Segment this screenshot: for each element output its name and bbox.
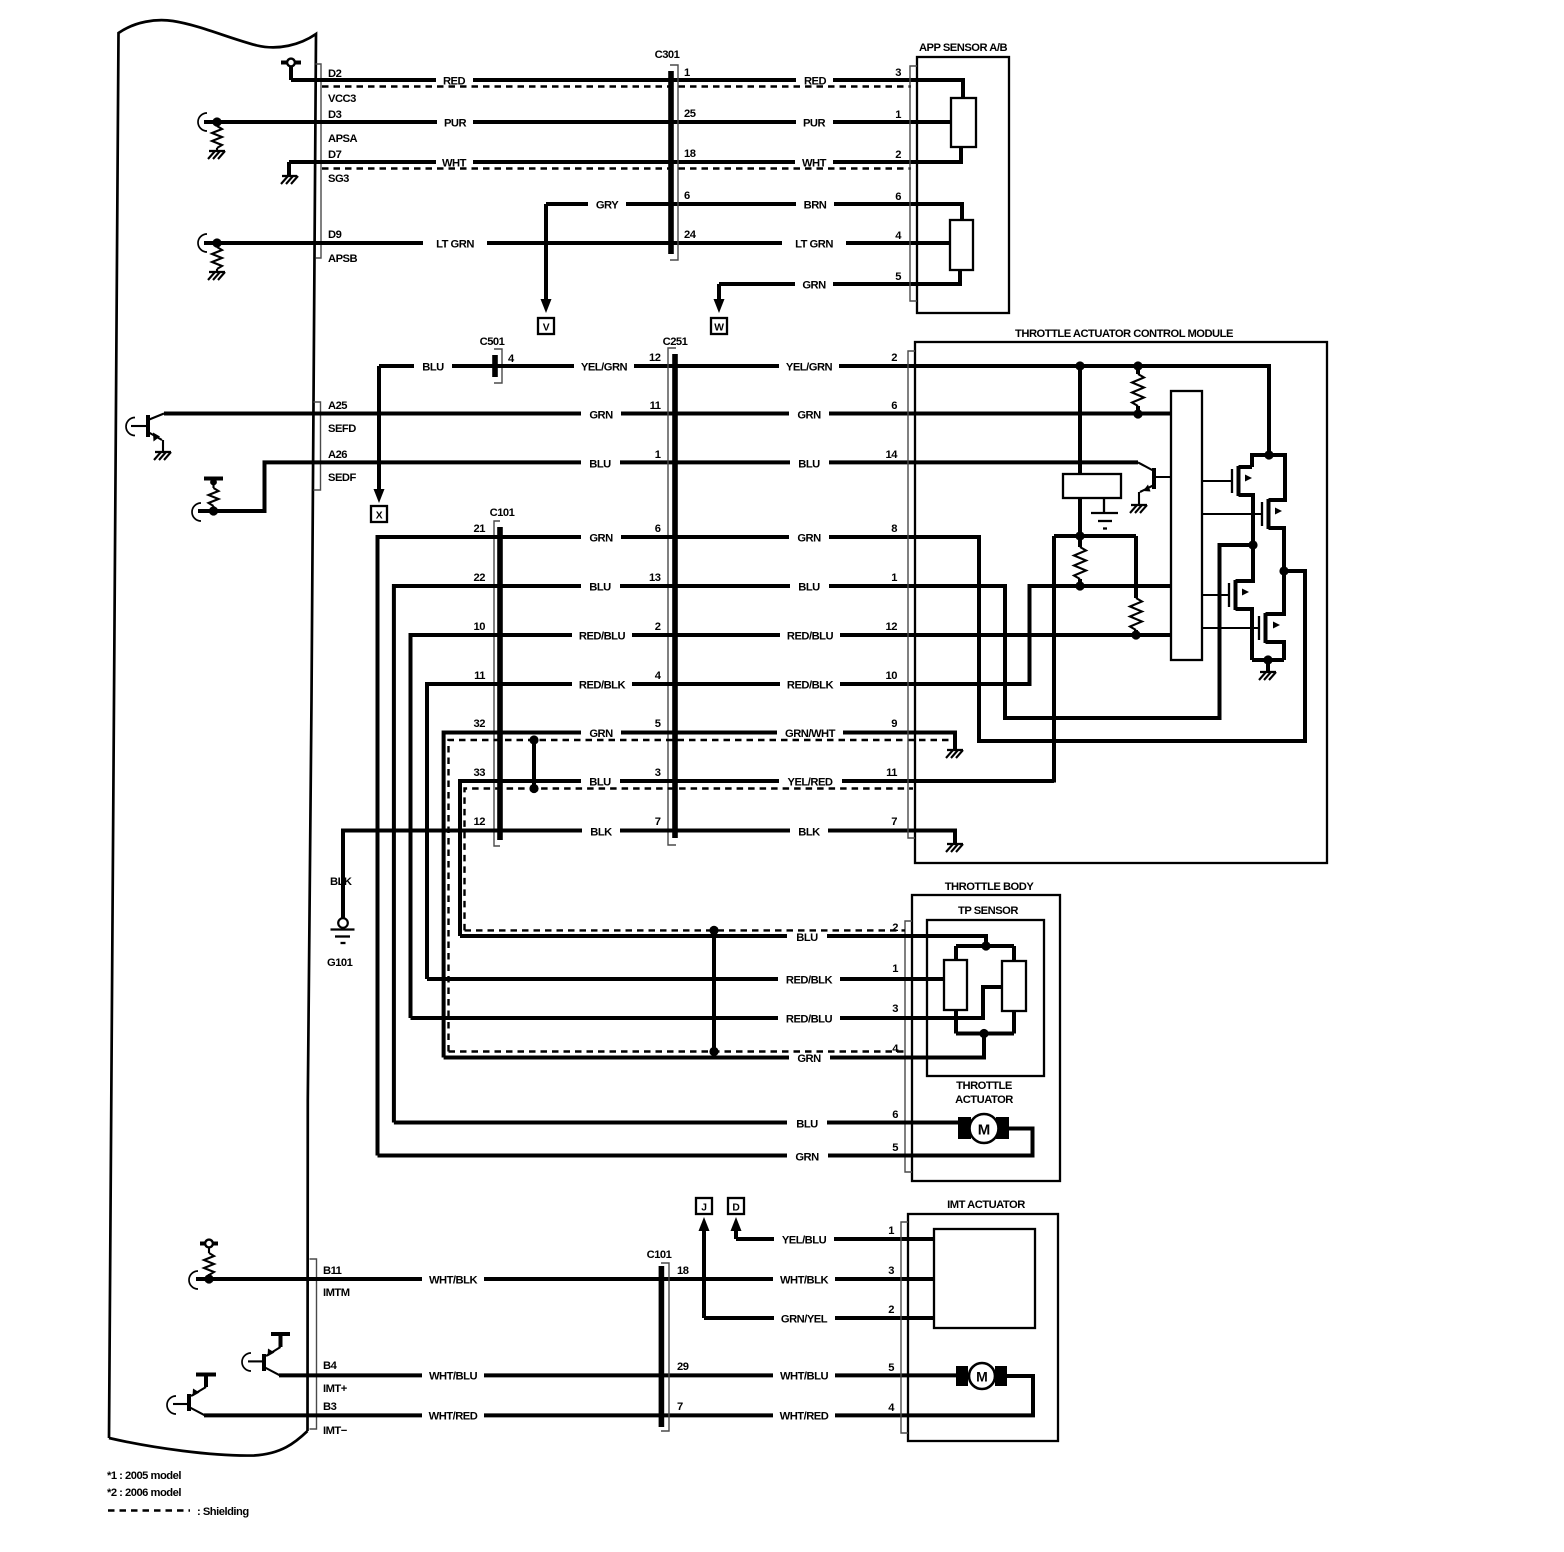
svg-text:7: 7 — [655, 816, 661, 828]
svg-text:WHT: WHT — [442, 158, 467, 170]
svg-text:WHT/BLK: WHT/BLK — [780, 1275, 828, 1287]
shielding legend — [108, 1506, 249, 1518]
module pin8 GRN wire to H-bridge output — [916, 537, 1305, 741]
svg-text:TP SENSOR: TP SENSOR — [958, 905, 1018, 917]
svg-text:3: 3 — [888, 1265, 894, 1277]
wire B11 IMTM WHT/BLK — [196, 1277, 908, 1281]
drop arrow V — [538, 204, 554, 334]
connector C101 upper — [474, 507, 515, 846]
bail + resistor on B11 line — [189, 1240, 218, 1289]
svg-text:5: 5 — [892, 1142, 898, 1154]
svg-text:GRN: GRN — [802, 280, 826, 292]
svg-text:IMT ACTUATOR: IMT ACTUATOR — [947, 1199, 1025, 1211]
svg-text:1: 1 — [895, 109, 901, 121]
svg-text:SEDF: SEDF — [328, 472, 357, 484]
APP sensor B potentiometer — [917, 204, 973, 284]
wire GRN APP pin5 to W drop — [719, 282, 918, 286]
shield dashed around BLU wire — [465, 789, 914, 931]
svg-text:A26: A26 — [328, 449, 347, 461]
connector bracket A-pins — [314, 402, 321, 490]
ground G101 — [327, 876, 355, 969]
svg-text:10: 10 — [886, 670, 898, 682]
wire GRN/YEL from J to IMT pin2 — [704, 1316, 908, 1320]
svg-text:APSB: APSB — [328, 253, 358, 265]
wire D2 VCC3 RED — [291, 78, 918, 82]
svg-text:BLU: BLU — [798, 459, 820, 471]
svg-text:PUR: PUR — [444, 118, 467, 130]
junction on supply rail — [1133, 361, 1142, 370]
junction on supply rail — [1075, 361, 1084, 370]
APP SENSOR A/B box — [895, 42, 1009, 313]
module pin7 BLK ground — [916, 831, 963, 853]
wire RED/BLK C101.11-C251.4-module.10 — [427, 684, 916, 979]
connector C251 — [649, 336, 688, 845]
transistor on A25 SEFD line — [126, 414, 171, 461]
svg-text:IMT−: IMT− — [323, 1425, 348, 1437]
H-bridge bottom rail + ground — [1252, 655, 1284, 680]
svg-text:11: 11 — [650, 400, 661, 412]
wire RED/BLK to TP pin1 — [427, 977, 912, 981]
svg-text:BLU: BLU — [798, 582, 820, 594]
earth ground under relay block — [1091, 498, 1118, 529]
connector bracket D-pins — [316, 64, 322, 258]
svg-text:PUR: PUR — [803, 118, 826, 130]
svg-text:M: M — [976, 1369, 988, 1385]
svg-text:C301: C301 — [655, 49, 680, 61]
svg-text:2: 2 — [655, 621, 661, 633]
svg-text:A25: A25 — [328, 400, 347, 412]
right bridge output node — [1279, 566, 1288, 575]
pull-up resistor with tap on A26 SEDF line — [192, 479, 223, 522]
svg-text:18: 18 — [677, 1265, 689, 1277]
module pin10 RED/BLK wire crossover to driver IC — [916, 586, 1171, 684]
svg-text:D9: D9 — [328, 229, 342, 241]
svg-text:7: 7 — [677, 1401, 683, 1413]
MOSFET M3 low-left — [1202, 545, 1253, 660]
svg-text:3: 3 — [895, 67, 901, 79]
drop arrow W — [711, 284, 727, 334]
svg-text:G101: G101 — [327, 957, 353, 969]
svg-text:GRY: GRY — [596, 200, 619, 212]
svg-text:29: 29 — [677, 1361, 689, 1373]
svg-text:33: 33 — [474, 767, 486, 779]
svg-text:5: 5 — [888, 1362, 894, 1374]
svg-text:APSA: APSA — [328, 133, 358, 145]
wire A25 SEFD GRN — [164, 412, 916, 416]
IMT motor — [908, 1363, 1033, 1415]
module pin1 BLU wire to H-bridge output — [916, 545, 1253, 718]
svg-text:RED/BLU: RED/BLU — [787, 631, 834, 643]
svg-text:C101: C101 — [647, 1249, 672, 1261]
svg-text:GRN: GRN — [589, 533, 613, 545]
svg-text:BLU: BLU — [589, 582, 611, 594]
svg-text:THROTTLE: THROTTLE — [956, 1080, 1013, 1092]
shield dashed above GRN — [449, 1050, 906, 1052]
svg-text:RED/BLU: RED/BLU — [579, 631, 626, 643]
svg-text:VCC3: VCC3 — [328, 93, 356, 105]
IMT ACTUATOR box — [888, 1199, 1058, 1441]
sense network top segment — [1054, 531, 1136, 540]
svg-text:BLU: BLU — [796, 932, 818, 944]
svg-text:14: 14 — [886, 449, 899, 461]
shield dashed under RED — [322, 85, 911, 87]
drop arrow D — [728, 1198, 744, 1239]
wire D3 APSA PUR — [204, 120, 918, 124]
wire RED/BLU C101.10-C251.2-module.12 — [411, 635, 917, 1018]
shield drain link near throttle body — [709, 926, 718, 1056]
svg-text:C251: C251 — [663, 336, 688, 348]
module pin14 BLU row — [916, 460, 1138, 464]
svg-text:5: 5 — [655, 718, 661, 730]
svg-text:SEFD: SEFD — [328, 423, 356, 435]
pull-down resistor + ground on D9 APSB line — [198, 234, 225, 280]
svg-text:6: 6 — [895, 191, 901, 203]
svg-text:D: D — [732, 1203, 739, 1214]
svg-text:RED/BLK: RED/BLK — [579, 680, 626, 692]
vertical sense left — [1052, 536, 1056, 783]
MOSFET M2 high-right — [1202, 499, 1285, 571]
svg-text:M: M — [978, 1122, 991, 1139]
svg-text:6: 6 — [891, 400, 897, 412]
svg-text:11: 11 — [886, 767, 897, 779]
module pin2 supply rail wire — [916, 366, 1269, 455]
svg-text:9: 9 — [891, 718, 897, 730]
svg-text:C501: C501 — [480, 336, 505, 348]
wire GRY from C301 pin6 to V drop — [546, 202, 671, 206]
wire RED/BLU to TP pin3 — [411, 1016, 913, 1020]
svg-text:1: 1 — [888, 1225, 894, 1237]
wire GRN to TP pin4 — [444, 1056, 912, 1060]
svg-text:3: 3 — [655, 767, 661, 779]
svg-text:6: 6 — [892, 1109, 898, 1121]
svg-text:GRN: GRN — [797, 410, 821, 422]
module pin12 RED/BLU row to driver IC — [916, 633, 1171, 637]
svg-text:C101: C101 — [490, 507, 515, 519]
svg-text:: Shielding: : Shielding — [197, 1506, 249, 1518]
svg-text:WHT/BLU: WHT/BLU — [780, 1371, 828, 1383]
svg-text:BLU: BLU — [589, 459, 611, 471]
wire colour labels top-left of C301 — [423, 71, 626, 251]
svg-text:22: 22 — [474, 572, 486, 584]
svg-text:GRN: GRN — [589, 410, 613, 422]
svg-text:GRN: GRN — [797, 1053, 821, 1065]
connector bracket B-pins — [310, 1259, 317, 1429]
pull-up resistor + ground on D3 APSA line — [198, 113, 225, 159]
transistor on B3 line — [167, 1375, 216, 1416]
svg-text:WHT/RED: WHT/RED — [429, 1411, 478, 1423]
wire BRN C301 pin6 to APP pin6 — [671, 202, 918, 206]
wire D9 APSB LT GRN — [204, 241, 918, 245]
svg-text:YEL/GRN: YEL/GRN — [786, 362, 833, 374]
svg-text:RED: RED — [443, 76, 466, 88]
svg-text:*1 : 2005 model: *1 : 2005 model — [107, 1470, 181, 1482]
driver IC block — [1171, 391, 1202, 660]
svg-text:3: 3 — [892, 1003, 898, 1015]
svg-text:1: 1 — [655, 449, 661, 461]
transistor on B4 line — [242, 1334, 290, 1375]
svg-text:YEL/RED: YEL/RED — [788, 777, 833, 789]
svg-text:6: 6 — [684, 190, 690, 202]
svg-text:*2 : 2006 model: *2 : 2006 model — [107, 1487, 181, 1499]
svg-text:BLU: BLU — [422, 362, 444, 374]
wire B3 IMT- WHT/RED — [204, 1413, 908, 1417]
svg-text:BLK: BLK — [590, 827, 612, 839]
svg-text:D7: D7 — [328, 149, 342, 161]
svg-text:BLK: BLK — [798, 827, 820, 839]
vertical sense right upper — [1134, 536, 1138, 586]
svg-text:1: 1 — [892, 963, 898, 975]
svg-text:2: 2 — [888, 1304, 894, 1316]
svg-text:BRN: BRN — [804, 200, 827, 212]
svg-text:GRN: GRN — [797, 533, 821, 545]
wire BLU to actuator pin6 — [394, 1121, 912, 1125]
shield dashed under WHT — [322, 167, 911, 169]
connector C301 — [655, 49, 697, 260]
svg-text:B4: B4 — [323, 1360, 338, 1372]
left bridge output node — [1248, 540, 1257, 549]
svg-text:13: 13 — [649, 572, 661, 584]
H-bridge top rail — [1252, 450, 1285, 499]
svg-text:5: 5 — [895, 271, 901, 283]
svg-text:ACTUATOR: ACTUATOR — [955, 1094, 1013, 1106]
resistor RA — [1074, 536, 1086, 591]
svg-text:X: X — [376, 511, 383, 522]
wire BLK C101.12-C251.7-module.7 — [343, 831, 916, 919]
svg-text:12: 12 — [474, 816, 486, 828]
svg-text:BLK: BLK — [330, 876, 352, 888]
module pin6 GRN row to driver IC — [916, 412, 1171, 416]
svg-text:BLU: BLU — [796, 1119, 818, 1131]
svg-text:J: J — [701, 1203, 707, 1214]
svg-text:7: 7 — [891, 816, 897, 828]
svg-text:THROTTLE BODY: THROTTLE BODY — [945, 881, 1035, 893]
svg-text:2: 2 — [892, 922, 898, 934]
svg-text:YEL/GRN: YEL/GRN — [581, 362, 628, 374]
svg-text:RED/BLU: RED/BLU — [786, 1014, 833, 1026]
resistor pin2-to-pin6 rail — [1132, 366, 1144, 419]
svg-text:V: V — [543, 323, 550, 334]
MOSFET M1 high-left — [1202, 466, 1253, 545]
svg-text:6: 6 — [655, 523, 661, 535]
ECM pin labels column — [323, 68, 358, 1437]
svg-text:GRN: GRN — [795, 1152, 819, 1164]
svg-text:WHT: WHT — [802, 158, 827, 170]
MOSFET M4 low-right — [1202, 571, 1284, 660]
wire YEL/GRN C251 to module pin2 — [677, 364, 916, 368]
svg-text:GRN/YEL: GRN/YEL — [781, 1314, 828, 1326]
svg-text:2: 2 — [891, 352, 897, 364]
svg-text:IMT+: IMT+ — [323, 1383, 348, 1395]
svg-text:SG3: SG3 — [328, 173, 349, 185]
svg-text:8: 8 — [891, 523, 897, 535]
svg-text:25: 25 — [684, 108, 696, 120]
svg-text:21: 21 — [474, 523, 486, 535]
svg-text:YEL/BLU: YEL/BLU — [782, 1235, 827, 1247]
wire GRN(shielded) C101.32-C251.5-module.9 GRN/WHT — [444, 733, 916, 1058]
svg-text:RED/BLK: RED/BLK — [786, 975, 833, 987]
svg-text:RED: RED — [804, 76, 827, 88]
wire YEL/BLU to IMT pin1 — [736, 1237, 908, 1241]
svg-text:24: 24 — [684, 229, 697, 241]
wire GRN C101.21-C251.6-module.8 — [378, 537, 917, 1156]
svg-text:W: W — [714, 323, 724, 334]
svg-text:1: 1 — [891, 572, 897, 584]
svg-text:LT GRN: LT GRN — [795, 239, 833, 251]
wire A26 SEDF BLU (z-bend) — [198, 462, 916, 511]
svg-text:WHT/BLK: WHT/BLK — [429, 1275, 477, 1287]
svg-text:11: 11 — [474, 670, 485, 682]
svg-text:32: 32 — [474, 718, 486, 730]
ECM/PCM torn outline band — [109, 20, 316, 1455]
shield dashed above BLU — [465, 929, 906, 931]
wire BLU C101.22-C251.13-module.1 — [394, 586, 916, 1123]
svg-text:12: 12 — [649, 352, 661, 364]
svg-text:LT GRN: LT GRN — [436, 239, 474, 251]
svg-text:GRN/WHT: GRN/WHT — [785, 728, 836, 740]
svg-text:WHT/RED: WHT/RED — [780, 1411, 829, 1423]
throttle actuator motor — [912, 1114, 1033, 1156]
wire D7 SG3 WHT — [289, 160, 918, 164]
connector C101 lower — [647, 1249, 689, 1431]
svg-text:10: 10 — [474, 621, 486, 633]
svg-text:THROTTLE ACTUATOR CONTROL MODU: THROTTLE ACTUATOR CONTROL MODULE — [1015, 328, 1234, 340]
svg-text:1: 1 — [684, 67, 690, 79]
wire BLU to TP pin2 — [460, 934, 912, 938]
svg-text:B11: B11 — [323, 1265, 342, 1277]
svg-text:RED/BLK: RED/BLK — [787, 680, 834, 692]
resistor RB — [1130, 586, 1142, 640]
IMT solenoid block — [908, 1229, 1035, 1328]
module pin11 YEL/RED wire — [916, 779, 1054, 783]
drop arrow X — [371, 366, 387, 522]
TP sensor potentiometer pair — [912, 936, 1026, 1058]
wire colour labels right of C301 — [782, 71, 846, 292]
svg-text:B3: B3 — [323, 1401, 337, 1413]
connector C501 — [480, 336, 515, 383]
svg-text:WHT/BLU: WHT/BLU — [429, 1371, 477, 1383]
svg-text:12: 12 — [886, 621, 898, 633]
svg-text:GRN: GRN — [589, 728, 613, 740]
wire B4 IMT+ WHT/BLU — [279, 1373, 908, 1377]
svg-text:D3: D3 — [328, 109, 342, 121]
ground stub on D7 SG3 line — [281, 162, 298, 184]
internal power tap (bail) above D2 — [281, 59, 301, 80]
wire BLU from X-corner to C501 — [379, 364, 495, 368]
svg-text:18: 18 — [684, 148, 696, 160]
svg-text:IMTM: IMTM — [323, 1287, 350, 1299]
wire YEL/GRN C501 to C251 — [495, 364, 673, 368]
drop arrow J — [696, 1198, 712, 1318]
svg-text:APP SENSOR A/B: APP SENSOR A/B — [919, 42, 1008, 54]
wire GRN to actuator pin5 — [378, 1154, 913, 1158]
module pin9 GRN/WHT ground — [916, 733, 963, 759]
svg-text:BLU: BLU — [589, 777, 611, 789]
wire BLU(shielded) C101.33-C251.3-module.11 YEL/RED — [460, 781, 916, 936]
relay/regulator block on vertical — [1063, 366, 1121, 532]
driver transistor Q1 — [1130, 462, 1171, 513]
footnotes — [107, 1470, 181, 1499]
APP sensor A potentiometer — [917, 80, 976, 162]
shield dashed around GRN wire — [449, 740, 951, 1052]
shield drain link between C101 and C251 — [529, 735, 538, 793]
svg-text:2: 2 — [895, 149, 901, 161]
